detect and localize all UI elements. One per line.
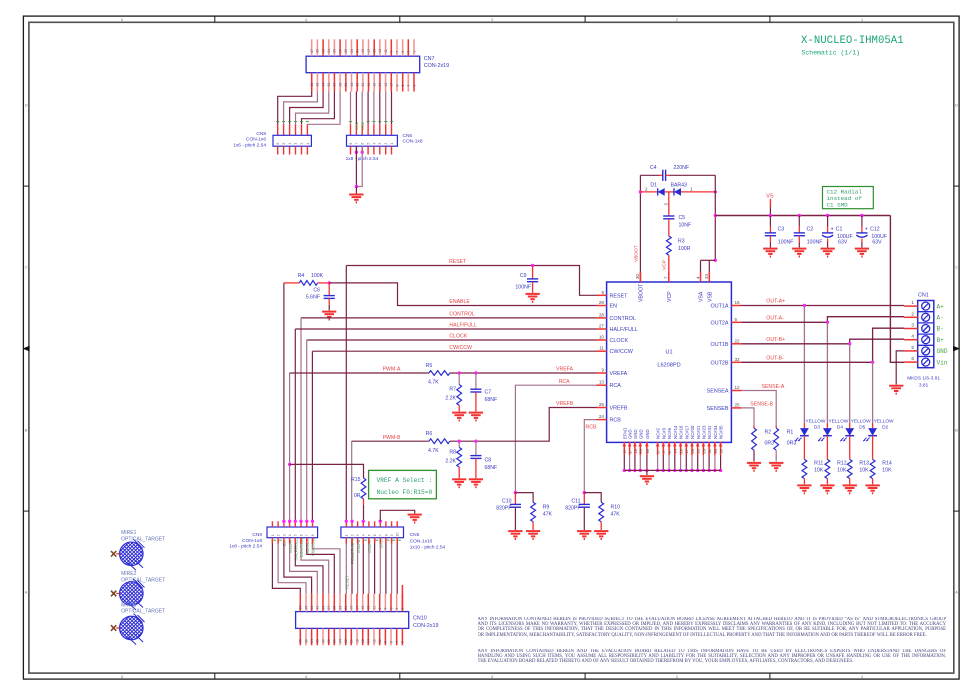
- wire RCA net: [515, 385, 596, 492]
- svg-text:U1: U1: [665, 350, 672, 356]
- svg-text:GND: GND: [379, 539, 384, 548]
- CN10 pin stub top 37: [299, 594, 301, 612]
- svg-text:5: 5: [367, 534, 371, 536]
- svg-text:C2: C2: [807, 227, 814, 233]
- svg-text:11: 11: [372, 606, 376, 610]
- CN10 pin stub top 25: [333, 594, 335, 612]
- svg-text:2: 2: [645, 187, 648, 192]
- svg-text:R1: R1: [787, 430, 794, 436]
- svg-text:16: 16: [361, 639, 365, 643]
- note box C12 Radial instead of C1 SMD: [823, 187, 874, 209]
- resistor R3 100R: [666, 236, 671, 255]
- wire OUT-B- down to LED: [872, 362, 874, 423]
- disclaimer paragraph 2: [478, 649, 947, 689]
- svg-text:C3: C3: [778, 227, 785, 233]
- svg-text:OPTICAL_TARGET: OPTICAL_TARGET: [121, 609, 165, 615]
- svg-text:R15: R15: [351, 477, 361, 483]
- capacitor C12 100UF: [861, 216, 863, 227]
- svg-text:EN: EN: [282, 540, 287, 546]
- CN10 pin19 top stub: [401, 585, 403, 612]
- CN10 pin stub top 11: [373, 594, 375, 612]
- svg-text:3: 3: [356, 534, 360, 536]
- svg-text:B: B: [25, 429, 28, 433]
- wire PWM-A net: [289, 373, 291, 521]
- svg-text:5: 5: [735, 317, 738, 322]
- svg-text:NC#21: NC#21: [696, 425, 701, 439]
- svg-text:68NF: 68NF: [485, 397, 498, 403]
- wire HALF/FULL net: [295, 328, 596, 330]
- connector CN5 CON-1x10: [341, 527, 404, 538]
- svg-text:14: 14: [378, 83, 382, 87]
- svg-text:NC#16: NC#16: [679, 425, 684, 439]
- svg-text:63V: 63V: [872, 239, 882, 245]
- wire CLOCK net: [307, 339, 597, 341]
- resistor R7 2.2K: [458, 373, 460, 385]
- svg-text:MIRE2: MIRE2: [121, 571, 137, 577]
- CN10 pin stub top 13: [367, 594, 369, 612]
- capacitor C10 820PF: [514, 493, 516, 505]
- svg-text:18: 18: [633, 448, 638, 453]
- CN7 pin stub top 11: [385, 39, 387, 56]
- wire SENSE-B net: [742, 408, 755, 426]
- svg-text:D2: D2: [882, 425, 888, 431]
- svg-text:23: 23: [350, 49, 354, 53]
- svg-text:4: 4: [395, 641, 399, 643]
- wire PWM-A to R15: [288, 463, 291, 466]
- wire U1 bottom pin to GND bus: [714, 455, 716, 470]
- svg-text:47K: 47K: [543, 512, 553, 518]
- wire U1 bottom pin to GND bus: [708, 455, 710, 470]
- svg-text:C: C: [25, 266, 28, 270]
- CN9 CN5 bottom red stubs: [271, 538, 273, 544]
- wire U1 bottom pin to GND bus: [674, 455, 676, 470]
- svg-text:36: 36: [316, 83, 320, 87]
- CN7 pin stub top 5: [402, 39, 404, 56]
- CN7 pin stub bottom 12: [385, 73, 387, 92]
- svg-text:5: 5: [389, 608, 393, 610]
- U1 bottom pin 17 NC#17: [685, 442, 687, 455]
- CN10 pin stub bottom 2: [401, 628, 403, 645]
- svg-text:21: 21: [696, 448, 701, 453]
- U1 bottom pin 31 NC#31: [708, 442, 710, 455]
- svg-text:C12: C12: [870, 227, 880, 233]
- svg-text:YELLOW: YELLOW: [851, 418, 871, 424]
- svg-text:25: 25: [735, 402, 741, 407]
- svg-text:R5: R5: [426, 363, 433, 369]
- svg-text:OPTICAL_TARGET: OPTICAL_TARGET: [121, 536, 165, 542]
- svg-text:CON-1x8: CON-1x8: [403, 139, 423, 145]
- svg-text:23: 23: [701, 448, 706, 453]
- wire R6 to VREFB: [450, 408, 597, 442]
- CN10 pin stub top 23: [339, 594, 341, 612]
- svg-text:1x8 - pitch 2.54: 1x8 - pitch 2.54: [229, 544, 262, 550]
- svg-text:21: 21: [344, 606, 348, 610]
- wire CN6 pin2 to ground: [355, 151, 358, 154]
- svg-text:R6: R6: [426, 431, 433, 437]
- resistor R12 10K: [825, 459, 830, 478]
- svg-text:1: 1: [271, 534, 275, 536]
- svg-text:SENSE-B: SENSE-B: [750, 401, 773, 407]
- resistor R1 0R3: [775, 426, 777, 428]
- CN10 pin stub top 17: [356, 594, 358, 612]
- U1 left pin 28 CONTROL: [597, 317, 607, 319]
- svg-text:26: 26: [333, 639, 337, 643]
- CN7 pin stub bottom 10: [390, 73, 392, 92]
- svg-text:4: 4: [305, 675, 307, 679]
- resistor R11 10K: [802, 459, 807, 478]
- svg-text:5: 5: [401, 51, 405, 53]
- U1 left pin 8 RESET: [597, 294, 607, 296]
- MIRE3 X pin: [111, 625, 116, 631]
- connector CN7 CON-2x19: [306, 56, 420, 72]
- svg-text:33: 33: [321, 49, 325, 53]
- CN10 pin stub bottom 12: [373, 628, 375, 645]
- svg-text:7: 7: [305, 534, 309, 536]
- svg-text:63V: 63V: [838, 239, 848, 245]
- U1 bottom pin 37 EPAD: [623, 442, 625, 455]
- capacitor C6 5.6NF: [328, 283, 330, 296]
- ground below C6: [322, 311, 336, 313]
- resistor R9 47K: [515, 493, 533, 503]
- svg-text:VSA: VSA: [699, 291, 705, 302]
- svg-text:2.2K: 2.2K: [445, 459, 456, 465]
- svg-text:A: A: [25, 591, 28, 595]
- svg-text:6: 6: [401, 85, 405, 87]
- connector CN6 CON-1x8: [347, 135, 398, 146]
- CN10 pin stub bottom 30: [322, 628, 324, 645]
- ground below R9: [526, 530, 540, 532]
- CN7 pin stub top 15: [373, 39, 375, 56]
- svg-text:HALF/FULL: HALF/FULL: [294, 538, 299, 561]
- svg-text:CLOCK: CLOCK: [610, 338, 629, 344]
- svg-text:CLOCK: CLOCK: [449, 334, 467, 340]
- svg-text:VREFB: VREFB: [556, 401, 574, 407]
- U1 left pin 13 RCA: [597, 384, 607, 386]
- ground below CN6: [349, 194, 363, 196]
- CN7 pin stub top 1: [413, 39, 415, 56]
- svg-text:R3: R3: [678, 239, 685, 245]
- svg-text:32: 32: [735, 357, 741, 362]
- resistor R8 2.2K: [458, 441, 460, 447]
- svg-text:CN8: CN8: [256, 131, 266, 137]
- svg-text:4: 4: [288, 534, 292, 536]
- svg-text:SENSE-A: SENSE-A: [762, 384, 785, 390]
- svg-text:0R3: 0R3: [765, 441, 775, 447]
- CN7 pin stub top 33: [322, 39, 324, 56]
- U1 bottom pin 36 GND: [646, 442, 648, 455]
- svg-text:5.6NF: 5.6NF: [306, 294, 320, 300]
- svg-text:R8: R8: [449, 450, 456, 456]
- svg-text:POWER-SPIN: POWER-SPIN: [350, 537, 355, 564]
- svg-text:20: 20: [690, 448, 695, 453]
- svg-text:CN6: CN6: [403, 133, 413, 139]
- U1 bottom pin 18 GND: [634, 442, 636, 455]
- wire CLOCK vertical from CN9: [306, 340, 308, 521]
- svg-text:13: 13: [599, 380, 605, 385]
- ground below R2: [747, 462, 761, 464]
- svg-text:0R: 0R: [354, 493, 361, 499]
- CN7 pin stub top 23: [351, 39, 353, 56]
- wire PWM-B net: [351, 441, 353, 521]
- svg-text:PWM-A: PWM-A: [383, 367, 401, 373]
- svg-text:1x6 - pitch 2.54: 1x6 - pitch 2.54: [233, 142, 266, 148]
- svg-text:GND: GND: [633, 429, 638, 439]
- svg-text:RESET: RESET: [610, 293, 629, 299]
- svg-text:NC#17: NC#17: [684, 425, 689, 439]
- svg-text:1: 1: [911, 300, 914, 306]
- CN7 pin stub top 13: [379, 39, 381, 56]
- U1 bottom pin 1 GND: [629, 442, 631, 455]
- wire U1 bottom pin to GND bus: [720, 455, 722, 470]
- wire CN6 pin3 to ground: [361, 151, 364, 154]
- svg-text:D: D: [25, 104, 28, 108]
- svg-text:GND: GND: [355, 121, 359, 130]
- svg-text:SENSEA: SENSEA: [707, 389, 729, 395]
- svg-text:13: 13: [367, 606, 371, 610]
- connector CN8 CON-1x6: [273, 135, 311, 146]
- wire CW/CCW net: [312, 350, 596, 352]
- svg-text:1: 1: [861, 18, 863, 22]
- tick marks below CN9 CN5: [273, 539, 276, 541]
- U1 bottom pin 19 GND: [639, 442, 641, 455]
- svg-text:10: 10: [599, 335, 605, 340]
- wire VS power bus: [715, 215, 890, 217]
- svg-text:36: 36: [304, 639, 308, 643]
- wire U1 bottom pin to GND bus: [629, 455, 631, 470]
- svg-text:15: 15: [361, 606, 365, 610]
- svg-text:OUT-A-: OUT-A-: [766, 315, 784, 321]
- ground below C9: [526, 293, 540, 295]
- CN7 pin stub bottom 38: [311, 73, 313, 92]
- LED D3 YELLOW: [803, 423, 805, 428]
- wire RESET vertical from CN5 pin1: [345, 266, 347, 522]
- svg-text:R2: R2: [765, 430, 772, 436]
- svg-text:RCB: RCB: [610, 418, 622, 424]
- svg-text:8: 8: [601, 290, 604, 295]
- svg-text:5: 5: [121, 675, 123, 679]
- svg-text:3: 3: [395, 608, 399, 610]
- U1 right pin 12 SENSEA: [731, 390, 741, 392]
- svg-text:OUT-A+: OUT-A+: [766, 299, 785, 305]
- svg-text:CON-1x6: CON-1x6: [246, 137, 266, 143]
- LED D4 YELLOW: [826, 423, 828, 428]
- svg-text:19: 19: [350, 606, 354, 610]
- svg-text:GND: GND: [937, 348, 948, 355]
- svg-text:12: 12: [384, 83, 388, 87]
- CN10 pin stub bottom 22: [345, 628, 347, 645]
- svg-text:CON-2x19: CON-2x19: [424, 63, 449, 69]
- svg-text:R12: R12: [837, 461, 847, 467]
- svg-text:6: 6: [361, 143, 365, 145]
- svg-text:VREFA: VREFA: [556, 367, 574, 373]
- svg-text:Vin: Vin: [937, 359, 948, 366]
- svg-text:10: 10: [390, 83, 394, 87]
- svg-text:HALF/FULL: HALF/FULL: [449, 323, 477, 329]
- svg-text:10K: 10K: [837, 468, 847, 474]
- svg-text:13: 13: [378, 49, 382, 53]
- CN7 pin stub bottom 28: [339, 73, 341, 92]
- svg-text:30: 30: [333, 83, 337, 87]
- svg-text:VREFA: VREFA: [610, 371, 628, 377]
- svg-text:PWM-B: PWM-B: [383, 435, 401, 441]
- svg-text:19: 19: [361, 49, 365, 53]
- ground below CN1: [889, 385, 903, 387]
- svg-text:6: 6: [276, 143, 280, 145]
- svg-text:CN9: CN9: [252, 532, 262, 538]
- svg-text:D1: D1: [650, 182, 657, 188]
- svg-text:CONTROL: CONTROL: [449, 312, 474, 318]
- CN7 pin stub bottom 18: [368, 73, 370, 92]
- svg-text:6: 6: [373, 534, 377, 536]
- svg-text:25: 25: [333, 606, 337, 610]
- svg-text:7: 7: [379, 534, 383, 536]
- CN1 screw terminal pin 1 A+: [922, 302, 930, 310]
- CN10 pin stub bottom 24: [339, 628, 341, 645]
- CN10 pin stub bottom 18: [356, 628, 358, 645]
- svg-text:33: 33: [310, 606, 314, 610]
- svg-text:9: 9: [601, 368, 604, 373]
- svg-text:A-: A-: [937, 315, 944, 322]
- svg-text:35: 35: [304, 606, 308, 610]
- svg-text:29: 29: [599, 300, 605, 305]
- svg-text:16: 16: [679, 448, 684, 453]
- svg-text:1: 1: [345, 534, 349, 536]
- svg-text:5: 5: [121, 18, 123, 22]
- wire U1 bottom pin to GND bus: [685, 455, 687, 470]
- svg-text:8: 8: [395, 85, 399, 87]
- capacitor C2 100NF: [798, 216, 800, 227]
- CN10 pin stub top 9: [379, 594, 381, 612]
- ground below U1: [640, 475, 654, 477]
- MIRE2 X pin: [111, 591, 116, 597]
- svg-text:3: 3: [378, 143, 382, 145]
- svg-text:29: 29: [321, 606, 325, 610]
- wire U1 bottom pin to GND bus: [668, 455, 670, 470]
- CN10 pin stub top 3: [396, 594, 398, 612]
- ground below R12: [820, 484, 834, 486]
- CN10 pin stub top 33: [311, 594, 313, 612]
- svg-text:34: 34: [713, 448, 718, 453]
- svg-text:CN5: CN5: [410, 532, 420, 538]
- svg-text:34: 34: [321, 83, 325, 87]
- CN1 screw terminal pin 4 B+: [922, 336, 930, 344]
- svg-text:28: 28: [599, 312, 605, 317]
- svg-text:820PF: 820PF: [565, 506, 580, 512]
- svg-text:4.7K: 4.7K: [428, 448, 439, 454]
- svg-text:1: 1: [306, 143, 310, 145]
- U1 bottom pin 2 NC#2: [657, 442, 659, 455]
- svg-text:9: 9: [390, 534, 394, 536]
- wire HALF/FULL vertical from CN9: [294, 329, 296, 521]
- svg-text:14: 14: [673, 448, 678, 453]
- ground near CN5: [408, 514, 422, 516]
- svg-text:22: 22: [344, 639, 348, 643]
- U1 right pin 32 OUT2B: [731, 361, 741, 363]
- capacitor C11 820PF: [583, 493, 585, 505]
- svg-text:B+: B+: [937, 337, 945, 344]
- svg-text:CN10: CN10: [413, 616, 427, 622]
- svg-text:37: 37: [310, 49, 314, 53]
- svg-text:A+: A+: [937, 303, 945, 310]
- U1 left pin 24 RCB: [597, 419, 607, 421]
- svg-text:18: 18: [355, 639, 359, 643]
- wire U1 bottom pin to GND bus: [634, 455, 636, 470]
- svg-text:VCP: VCP: [662, 260, 668, 270]
- U1 bottom pin 35 NC#35: [720, 442, 722, 455]
- wire bundle CN5 to CN10: [345, 538, 347, 594]
- svg-text:CON-1x8: CON-1x8: [242, 538, 262, 544]
- diode D1 BAR43: [639, 190, 642, 193]
- svg-text:8: 8: [384, 641, 388, 643]
- U1 bottom pin 6 NC#6: [668, 442, 670, 455]
- svg-text:VREF A Select :: VREF A Select :: [377, 477, 433, 484]
- wire R5 to VREFA: [450, 372, 597, 374]
- CN7 pin stub bottom 6: [402, 73, 404, 92]
- connector CN10 CON-2x19: [296, 612, 409, 629]
- MIRE1 X pin: [111, 551, 116, 557]
- svg-text:L6208PD: L6208PD: [657, 363, 680, 369]
- svg-text:2: 2: [676, 18, 678, 22]
- svg-text:31: 31: [707, 448, 712, 453]
- ground below R7: [452, 412, 466, 414]
- svg-text:7: 7: [395, 51, 399, 53]
- CN7 pin stub bottom 30: [333, 73, 335, 92]
- svg-text:GND: GND: [628, 429, 633, 439]
- svg-text:CONTROL: CONTROL: [299, 536, 304, 557]
- svg-text:11: 11: [384, 49, 388, 53]
- svg-text:9: 9: [378, 608, 382, 610]
- svg-text:GND: GND: [645, 429, 650, 439]
- svg-text:CW/CCW: CW/CCW: [449, 345, 472, 351]
- svg-text:2: 2: [412, 85, 416, 87]
- op IC U1 L6208PD body: [607, 282, 732, 442]
- CN10 pin stub bottom 32: [316, 628, 318, 645]
- capacitor C7 68NF: [475, 373, 477, 389]
- wire CN1 pin5 GND: [896, 351, 904, 385]
- svg-text:NC#2: NC#2: [656, 427, 661, 439]
- svg-text:100NF: 100NF: [778, 239, 794, 245]
- svg-text:OUT-B+: OUT-B+: [766, 337, 785, 343]
- wire bundle CN7 to CN8 staircase: [278, 92, 312, 125]
- svg-text:12: 12: [735, 385, 741, 390]
- CN7 pin stub bottom 8: [396, 73, 398, 92]
- svg-text:R13: R13: [859, 461, 869, 467]
- svg-text:1x10 - pitch 2.54: 1x10 - pitch 2.54: [410, 545, 446, 551]
- svg-text:+: +: [831, 226, 834, 232]
- svg-text:MIRE1: MIRE1: [121, 530, 137, 536]
- svg-text:NC#31: NC#31: [707, 425, 712, 439]
- CN10 pin stub bottom 26: [333, 628, 335, 645]
- svg-text:12: 12: [372, 639, 376, 643]
- svg-text:OUT2B: OUT2B: [711, 360, 729, 366]
- svg-text:2: 2: [350, 534, 354, 536]
- ground below R8: [452, 478, 466, 480]
- wire R15 to CN5 pin4: [363, 499, 365, 505]
- svg-text:X-NUCLEO-IHM05A1: X-NUCLEO-IHM05A1: [801, 35, 904, 47]
- svg-text:28: 28: [327, 639, 331, 643]
- svg-text:VREFB: VREFB: [610, 406, 628, 412]
- svg-text:CN7: CN7: [424, 56, 435, 62]
- CN10 pin stub bottom 14: [367, 628, 369, 645]
- svg-text:30: 30: [635, 274, 640, 279]
- CN7 pin stub bottom 14: [379, 73, 381, 92]
- svg-text:MKDS 1/6-3.81: MKDS 1/6-3.81: [907, 376, 940, 382]
- CN7 pin stub top 29: [333, 39, 335, 56]
- svg-text:11: 11: [599, 346, 604, 351]
- svg-text:BAR43: BAR43: [671, 182, 688, 188]
- svg-text:34: 34: [310, 639, 314, 643]
- svg-text:R4: R4: [298, 273, 305, 279]
